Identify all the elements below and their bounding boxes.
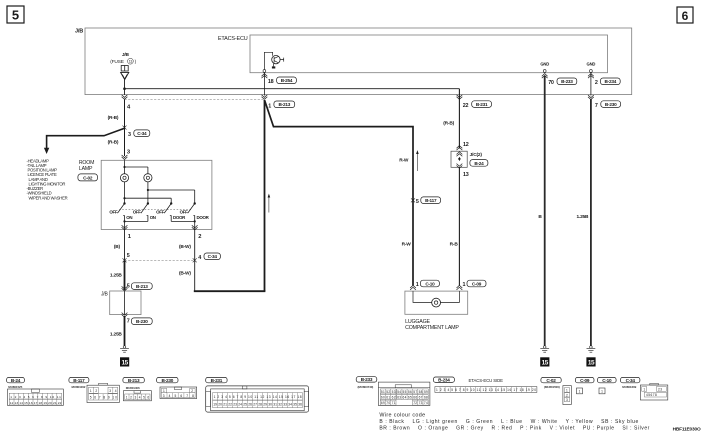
svg-text:(R-B): (R-B) [443,121,454,127]
direction arrow beside B-213 wire [268,194,271,213]
svg-text:B-230: B-230 [136,319,148,324]
earth point 15 middle [540,357,549,366]
svg-text:B-117: B-117 [425,198,437,203]
svg-text:54 55 56 57 58 59: 54 55 56 57 58 59 [397,390,428,394]
luggage compartment lamp box [405,291,468,314]
svg-text:1 2 3 4 5 6 7 8 9 10 11 12 13: 1 2 3 4 5 6 7 8 9 10 11 12 13 14 15 16 1… [214,395,302,399]
svg-text:C-10: C-10 [425,281,435,286]
svg-text:1 2 3 4 5 6 7 8 9 10 11: 1 2 3 4 5 6 7 8 9 10 11 [10,395,61,399]
connector pin 4 (B-213) [122,95,131,111]
GND label right [587,62,596,73]
switch SW4 OFF/DOOR [180,202,210,221]
wire B-231 column [458,89,460,149]
svg-text:22: 22 [463,103,469,109]
svg-text:R-W: R-W [399,158,409,164]
svg-text:DOOR: DOOR [197,215,210,220]
svg-text:1: 1 [268,103,271,109]
ground right [587,346,596,353]
svg-text:B : Black LG : Light green: B : Black LG : Light green G : Green L :… [379,419,638,425]
svg-text:GND: GND [540,62,549,67]
ground middle [540,346,549,353]
earth point 15 right [586,357,595,366]
connector diagram C-34 [621,377,668,400]
connector pin 5 B-213 lower [122,283,153,291]
svg-text:OFF: OFF [133,210,141,215]
svg-text:72 73 74: 72 73 74 [413,401,428,405]
svg-text:7: 7 [127,319,130,325]
svg-text:1 2: 1 2 [90,389,97,393]
svg-text:60 61 62: 60 61 62 [381,396,396,400]
pin 13 label [463,172,469,178]
wire 1.25B node5 to J/B [110,260,125,291]
svg-text:5: 5 [416,199,419,205]
svg-text:B-233: B-233 [361,377,373,382]
earth point 15 left [120,357,129,366]
svg-text:(B-W): (B-W) [179,244,191,250]
svg-text:C-02: C-02 [83,175,93,180]
svg-text:B-230: B-230 [162,378,174,383]
wire R-B to luggage lamp [450,167,460,285]
svg-text:15: 15 [588,360,595,367]
svg-text:B-213: B-213 [136,284,148,289]
node 3 C-34 [123,126,150,138]
connector diagram B-231 [206,377,309,412]
wire 1.25B to ground left [110,316,125,346]
connector pin 3 room lamp [122,150,131,160]
svg-text:3: 3 [128,132,131,138]
svg-text:5: 5 [127,253,130,259]
svg-text:(B): (B) [114,244,121,250]
svg-text:13: 13 [463,172,469,178]
luggage lamp internal wiring [413,291,459,302]
wires lamps to switches [123,182,194,204]
svg-text:J/B: J/B [101,291,108,297]
svg-text:(MU801500): (MU801500) [544,385,560,389]
svg-text:3 4: 3 4 [109,389,116,393]
svg-text:R-B: R-B [450,241,459,247]
svg-text:J/B: J/B [75,29,83,35]
connector diagram B-234 ETACS-ECU SIDE [433,377,537,392]
svg-text:(R-B): (R-B) [108,115,119,121]
svg-text:13: 13 [129,60,133,64]
svg-text:MU801525: MU801525 [8,385,22,389]
GND label left [540,62,549,73]
svg-text:COMPARTMENT LAMP: COMPARTMENT LAMP [405,325,459,331]
connector pin 2 room lamp [192,225,202,240]
svg-text:MU801002: MU801002 [72,385,86,389]
lamp bulb 1 [120,174,128,182]
wire branch to headlamp loads [44,128,125,154]
svg-text:7: 7 [595,103,598,109]
svg-text:C-34: C-34 [208,254,218,259]
ETACS internal transistor U1 [263,52,284,72]
svg-text:5: 5 [12,8,19,23]
svg-text:2 3: 2 3 [658,388,662,392]
connector diagram B-213 [123,377,151,400]
wire fuse feed horizontal [125,88,460,90]
luggage lamp label [405,319,459,331]
connector diagram B-24 [7,377,64,405]
connector diagram C-02 [541,377,571,404]
wire 1.25B to ground (GND B) [576,99,590,346]
svg-text:R-W: R-W [402,241,412,247]
svg-text:B-24: B-24 [474,161,484,166]
svg-text:5 6 7 8 9 10: 5 6 7 8 9 10 [90,396,117,400]
connector diagram B-230 [157,377,197,398]
svg-text:OFF: OFF [109,210,117,215]
page number box 6 [677,7,693,23]
wire (B-W) pin2 upper [179,230,195,292]
svg-text:J/B: J/B [122,52,130,58]
wire B to ground (GND A) [538,76,544,346]
room lamp internal feed wires [123,160,147,173]
lamp bulb 2 [144,174,152,182]
svg-text:ETACS-ECU: ETACS-ECU [218,36,248,42]
svg-text:B-231: B-231 [476,102,488,107]
svg-text:19 20 21 22 23 24 25 26 27 28: 19 20 21 22 23 24 25 26 27 28 29 30 31 3… [213,402,302,406]
wire thick diagonal and top run to luggage [265,100,414,285]
svg-text:DOOR: DOOR [173,215,186,220]
switch output wires [123,220,195,229]
svg-text:B-254: B-254 [281,78,293,83]
svg-text:Wire colour code: Wire colour code [379,413,425,419]
fuse 13 label [110,52,136,65]
svg-text:1.25B: 1.25B [110,272,123,278]
svg-text:1 2 3 4 5 6: 1 2 3 4 5 6 [126,396,150,400]
svg-text:2: 2 [198,234,201,240]
svg-text:B-24: B-24 [11,378,21,383]
svg-text:B-233: B-233 [561,79,573,84]
dashed connector link B-213 [125,99,265,101]
svg-text:C-09: C-09 [472,281,482,286]
wire fuse down to J/B bottom [124,80,126,95]
svg-text:MU801609: MU801609 [622,385,636,389]
node 5 / 4 C-34 dashed link [123,258,197,262]
wire thick bottom run to room lamp pin2 [194,290,266,292]
svg-text:B-231: B-231 [211,378,223,383]
svg-text:B-230: B-230 [605,102,617,107]
junction block J/B box [75,28,632,95]
svg-text:B-213: B-213 [279,102,291,107]
switch linkage dashed [119,209,191,211]
junction dot fuse feed [123,87,126,90]
svg-text:B-234: B-234 [438,377,450,382]
wire thick B-213 pin1 down [264,100,266,291]
svg-text:WIPER AND WASHER: WIPER AND WASHER [29,195,68,200]
svg-text:18: 18 [268,79,274,85]
svg-text:OFF: OFF [156,210,164,215]
connector pin 1 room lamp [122,225,132,240]
fuse F13 symbol [121,66,129,80]
switch SW3 OFF/DOOR [156,202,186,221]
svg-text:LAMP: LAMP [79,166,93,172]
connector pin 1 C-10 [410,280,439,290]
small J/B box lower [101,291,141,315]
room lamp box [101,160,212,229]
wire ETACS pin18 riser [263,72,265,95]
wire label R-W lower [402,241,412,247]
connector pin 7 B-230 lower [122,313,153,325]
svg-text:1 2 3 4 5 6 7 8 9 10 11 12 13: 1 2 3 4 5 6 7 8 9 10 11 12 13 14 15 16 1… [436,388,536,392]
wire colour code legend [379,413,649,432]
connector diagram C-10 [598,377,617,393]
wire (B) pin1 to node 5 [114,230,130,261]
svg-text:ON: ON [150,215,156,220]
svg-text:(FUSE: (FUSE [110,59,124,65]
svg-text:1: 1 [416,282,419,288]
headlamp load list [27,158,68,200]
svg-text:J/C(2): J/C(2) [470,152,483,158]
svg-text:B-234: B-234 [605,79,617,84]
connector pin 2 B-234 [588,74,620,86]
connector 5 B-117 inline [411,197,441,205]
wire GND B thin segment through J/B [590,72,592,95]
svg-text:MU801406: MU801406 [126,386,140,390]
svg-text:12 13 14 15 16 17 18 19 20 21: 12 13 14 15 16 17 18 19 20 21 22 [10,401,62,405]
luggage lamp bulb [432,298,441,307]
connector pin 1 C-09 [457,280,487,290]
svg-text:ETACS-ECU SIDE: ETACS-ECU SIDE [469,378,504,383]
svg-text:70: 70 [548,80,554,86]
joint connector J/C(2) B-24 [451,146,488,169]
switch SW2 OFF/ON [133,202,156,221]
svg-text:15: 15 [121,360,128,367]
svg-text:GND: GND [587,62,596,67]
svg-text:(MU803740): (MU803740) [358,385,374,389]
svg-text:1.25B: 1.25B [576,214,589,220]
svg-text:C-34: C-34 [137,131,147,136]
svg-text:C-34: C-34 [626,378,636,383]
wire (R-B) pin4 to node C-34 [108,100,125,157]
direction arrow beside R-W wire [416,150,419,171]
svg-text:C-02: C-02 [546,378,556,383]
page number box 5 [7,6,24,23]
pin 12 label [463,142,469,148]
svg-text:(B-W): (B-W) [179,271,191,277]
connector pin 7 B-230 [588,95,621,109]
room lamp label C-02 [78,160,98,181]
svg-text:69 70 71: 69 70 71 [381,401,396,405]
connector pin 1 B-213 [262,95,295,110]
node 4 C-34 label [198,253,220,261]
svg-text:4 5 6 7 8: 4 5 6 7 8 [646,393,657,397]
svg-text:C-09: C-09 [580,378,590,383]
svg-text:(R-B): (R-B) [108,139,119,145]
svg-text:51 52 53: 51 52 53 [381,390,396,394]
svg-text:B-117: B-117 [73,378,85,383]
svg-text:B-213: B-213 [128,378,140,383]
svg-text:6: 6 [682,9,689,23]
svg-text:OFF: OFF [180,210,188,215]
svg-text:BR : Brown O : Orange GR: BR : Brown O : Orange GR : Grey R : Red … [379,426,649,432]
svg-text:C-10: C-10 [602,378,612,383]
ground left [120,346,129,353]
svg-text:1: 1 [463,282,466,288]
connector pin 70 B-233 [542,74,577,86]
wire label R-W upper [399,158,409,164]
svg-text:1.25B: 1.25B [110,331,123,337]
svg-text:HBF11E030O: HBF11E030O [673,427,701,433]
svg-text:15: 15 [542,360,549,367]
svg-text:12: 12 [463,142,469,148]
wire label (R-B) lower [108,139,119,145]
svg-text:2: 2 [595,80,598,86]
connector diagram B-117 [69,377,119,402]
connector pin 18 B-254 [262,74,297,85]
svg-text:4: 4 [198,255,201,261]
svg-text:63 64 65 66 67 68: 63 64 65 66 67 68 [397,396,428,400]
svg-text:ON: ON [126,215,132,220]
switch SW1 OFF/ON [109,202,132,221]
ETACS-ECU box [218,35,608,73]
drawing number [673,427,701,433]
wire label (R-B) [443,121,454,127]
connector pin 22 B-231 [457,95,492,109]
connector diagram C-09 [575,377,594,393]
connector diagram B-233 [356,377,430,406]
